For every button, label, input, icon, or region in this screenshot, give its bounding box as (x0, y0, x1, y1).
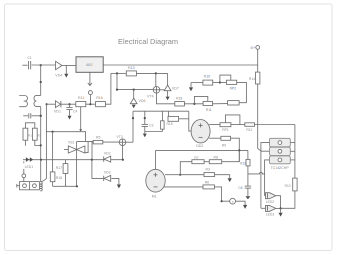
svg-text:R10: R10 (204, 74, 211, 78)
zener VD7 to ground (164, 85, 179, 100)
junction dot (89, 103, 91, 105)
arrow to ground after VD4 (64, 66, 68, 78)
amplifier DD2 (191, 120, 210, 149)
svg-text:VD3: VD3 (104, 171, 111, 175)
junction dot (122, 159, 124, 161)
wire R9 corner down (231, 138, 240, 162)
relay K1 cell 2 (270, 147, 291, 155)
capacitor C4 (66, 104, 77, 119)
wire node to relay col with jumper (248, 172, 265, 174)
wire VD3 row (92, 160, 103, 179)
resistor R8 (209, 156, 221, 164)
wire triac top rail (77, 140, 94, 142)
svg-text:R10: R10 (285, 184, 291, 188)
wire R13 to corner (136, 72, 167, 74)
potentiometer RP1 (220, 115, 240, 132)
svg-text:B+: B+ (251, 46, 256, 50)
resistor R11b (245, 123, 255, 132)
wire rail corner down to DD2 (189, 111, 191, 131)
svg-text:R11: R11 (206, 108, 212, 112)
resistor R3 (204, 167, 215, 176)
svg-text:LED2: LED2 (266, 200, 275, 204)
ground arrow gates (279, 208, 283, 216)
junction dot (219, 81, 221, 83)
resistor R12 (228, 101, 240, 105)
wire LED3 out (276, 207, 281, 209)
junction dot (52, 131, 54, 133)
resistor R9 (221, 136, 231, 147)
wire left column to L1 (40, 160, 42, 182)
wire triac anode down (76, 154, 78, 186)
svg-text:R15: R15 (166, 122, 172, 126)
optocoupler LED2 (265, 193, 276, 204)
svg-text:R17: R17 (56, 166, 62, 170)
ground arrow R3 (228, 178, 232, 182)
wire R13 row (111, 72, 126, 74)
arrow below U1 (88, 72, 92, 85)
terminal B+ (251, 46, 260, 51)
svg-text:R6: R6 (205, 181, 209, 185)
junction dot C4 node (68, 103, 70, 105)
resistor R20 vertical (161, 111, 165, 131)
svg-text:R14: R14 (249, 77, 255, 81)
junction dot (193, 103, 195, 105)
connector XS1 (17, 182, 40, 190)
wire jog to triac top (81, 132, 86, 142)
svg-text:R2: R2 (38, 133, 42, 137)
wire R2 to main vertical (35, 140, 41, 145)
resistor R11 (76, 96, 86, 107)
potentiometer RP2 (220, 75, 237, 90)
wire VT4 bottom to R19 row (157, 93, 175, 104)
capacitor C1 (27, 56, 32, 69)
resistor R18 (50, 172, 62, 182)
long wire U1 to B+ column (103, 64, 258, 66)
wire R10 to RP2 (213, 81, 227, 83)
wire right column (294, 125, 296, 179)
potentiometer RP3 (194, 96, 212, 112)
resistor R15 (166, 111, 188, 126)
svg-text:R18: R18 (56, 176, 62, 180)
wire B+ down (257, 49, 259, 72)
svg-text:LED3: LED3 (266, 213, 275, 217)
svg-text:R16: R16 (96, 96, 103, 100)
wire M1 stem (155, 150, 157, 169)
svg-text:VD4: VD4 (55, 74, 62, 78)
wire cell1 left (261, 143, 270, 209)
wire R11 to node (86, 103, 96, 105)
triac VS1 (64, 141, 85, 155)
wire R11b to right column (255, 124, 295, 126)
ground arrow meter (243, 205, 247, 209)
svg-text:R19: R19 (176, 96, 182, 100)
svg-text:VS1: VS1 (68, 141, 75, 145)
diode VD8 series pair (26, 157, 33, 162)
wire top-left input (22, 64, 27, 66)
svg-text:R11: R11 (78, 96, 84, 100)
junction dot (40, 81, 42, 83)
svg-text:R13: R13 (128, 66, 135, 70)
LED LED1 (22, 161, 33, 181)
resistor R16 (96, 96, 106, 107)
wire bottom rail triac (53, 185, 78, 187)
svg-text:C6: C6 (238, 186, 242, 190)
svg-text:VD7: VD7 (172, 86, 179, 90)
wire R5 to VT3 (103, 141, 120, 143)
wire R8 up to rail (222, 150, 240, 161)
junction dot (40, 115, 42, 117)
node A junction (40, 64, 42, 66)
wire drop to VD7 (167, 73, 169, 85)
junction dot (280, 207, 282, 209)
wire cell3 left (265, 160, 270, 196)
wire motor top rail (156, 149, 248, 151)
capacitor C2 series (23, 113, 41, 118)
wire VT3 bottom drop (122, 146, 124, 160)
capacitor C6 to ground (238, 174, 251, 199)
svg-text:Electrical Diagram: Electrical Diagram (118, 37, 178, 46)
svg-text:M1: M1 (152, 194, 157, 198)
svg-text:DD2: DD2 (196, 144, 203, 148)
wire mid rail (117, 73, 153, 89)
wire R3 to ground (215, 175, 230, 179)
svg-text:R5: R5 (96, 136, 100, 140)
junction dot (40, 159, 42, 161)
diode VD3 (104, 171, 111, 182)
diode VD4 (55, 61, 62, 77)
motor M1 (146, 169, 165, 198)
svg-text:VT3: VT3 (116, 135, 122, 139)
wire R7 to R8 (204, 161, 209, 163)
wire cell3 right (290, 159, 295, 161)
wire LED2 out (276, 196, 281, 209)
IC U1 (76, 57, 103, 73)
wire cell2 right (290, 150, 295, 152)
resistor R13 (126, 66, 136, 76)
wire R6 to meter (214, 187, 229, 201)
wire right column to L1 (42, 104, 47, 181)
wire main vertical top (40, 65, 42, 95)
svg-text:R1: R1 (28, 133, 32, 137)
wire R16 up to R13 row (105, 73, 111, 104)
wire DD2 to RP1 (209, 124, 220, 126)
junction dot (40, 144, 42, 146)
svg-text:C1: C1 (27, 56, 32, 60)
wire M1 bottom row (164, 186, 203, 188)
wire column to B+ rail junction (257, 125, 259, 149)
wire kink into relay cell2 (258, 148, 270, 151)
capacitor C3 to ground (142, 111, 154, 137)
inductor L1 (40, 182, 42, 191)
wire main vertical through winding (40, 107, 42, 116)
optocoupler LED3 (261, 205, 276, 216)
resistor R5 (93, 136, 103, 144)
wire drop to R18 (52, 132, 54, 172)
zener VD6 to ground (130, 90, 145, 109)
svg-text:VD1: VD1 (54, 109, 61, 113)
wire VD1 to R11 (61, 103, 76, 105)
svg-text:R11: R11 (246, 128, 252, 132)
resistor R1 (23, 128, 32, 140)
wire VT3 gate row (46, 131, 81, 133)
wire drop to VT4 (155, 73, 157, 86)
wire RP1 to R11b (231, 124, 245, 126)
svg-text:R7: R7 (194, 156, 198, 160)
wire R3 row (180, 174, 204, 176)
wire VD4 to U1 (62, 65, 76, 67)
wire long low rail (23, 159, 123, 161)
wire R12 loop up to RP2 (237, 82, 247, 102)
wire VD1 row start (46, 103, 56, 105)
junction dot (116, 72, 118, 74)
resistor R17 (56, 164, 68, 174)
junction dot (116, 89, 118, 91)
wire R1 R2 top bridge (25, 123, 34, 128)
resistor R10 (203, 74, 213, 85)
junction dot (155, 72, 157, 74)
svg-text:R8: R8 (214, 156, 218, 160)
resistor R14 (249, 72, 260, 84)
svg-text:RP2: RP2 (230, 86, 237, 90)
resistor R6 (203, 181, 214, 189)
svg-text:LED1: LED1 (25, 165, 34, 169)
wire R18 bottom (52, 182, 54, 187)
svg-text:R3: R3 (206, 167, 210, 171)
wire R19 to RP3 (184, 103, 203, 105)
wire cell1 right (290, 142, 295, 144)
svg-text:VD2: VD2 (104, 151, 111, 155)
wire R5 left drop (92, 142, 93, 160)
resistor R22 (240, 150, 250, 174)
transformer T1 right winding (34, 95, 41, 106)
svg-text:C3: C3 (149, 123, 153, 127)
resistor R7 (192, 156, 204, 164)
diode VD2 (104, 151, 111, 162)
wire VT4 right (160, 89, 165, 91)
meter PA1 (230, 198, 236, 204)
wire meter to ground (236, 201, 246, 205)
wire RP3 to R12 (213, 103, 228, 105)
wire DD2 lower to R9 (209, 137, 221, 139)
transistor VT3 (116, 135, 125, 145)
junction dot (179, 174, 181, 176)
wire R17 top stem (65, 160, 67, 164)
wire R17 bottom (65, 173, 67, 186)
svg-text:ABC: ABC (86, 63, 94, 67)
junction dot (76, 185, 78, 187)
svg-text:R9: R9 (222, 143, 226, 147)
junction dot (91, 159, 93, 161)
junction dot (132, 117, 134, 119)
wire triac gate branch (85, 141, 88, 152)
svg-text:VD6: VD6 (139, 99, 146, 103)
wire main vertical mid (40, 116, 42, 160)
wire R14 down to RP1 row (257, 84, 259, 125)
wire C1 to node (32, 64, 56, 66)
wire vertical x133 (132, 111, 134, 142)
svg-text:VT4: VT4 (147, 95, 154, 99)
wire VD3 to ground (111, 178, 119, 184)
node terminal circle below U1 (88, 91, 92, 105)
svg-text:TC142CHP: TC142CHP (270, 166, 289, 170)
junction dot (221, 200, 223, 202)
wire mid horizontal rail (133, 110, 189, 112)
ground arrow VD3 (117, 185, 121, 189)
arrow R11 wiper (79, 107, 82, 132)
resistor R2 (32, 128, 41, 140)
ground arrow R10 row (189, 83, 193, 92)
wire R20 bottom to C3 (145, 131, 163, 133)
junction dot (238, 149, 240, 151)
wire ground to R10 (191, 82, 203, 84)
diode VD1 (54, 101, 61, 114)
transformer T1 left winding (19, 96, 27, 107)
wire M1 right to node (165, 174, 180, 176)
wire R1 bottom stub (24, 140, 26, 146)
svg-text:R12: R12 (240, 161, 246, 165)
transistor VT4 (147, 87, 160, 99)
resistor R19 (175, 96, 185, 106)
relay K1 cell 3 (270, 156, 291, 170)
svg-text:C4: C4 (73, 110, 77, 114)
relay K1 cell 1 (270, 138, 291, 147)
wire node up to R7 row (180, 162, 192, 175)
svg-text:RP1: RP1 (222, 128, 229, 132)
junction dot (133, 89, 135, 91)
wire VT3 right to x133 (126, 141, 133, 143)
wire R21 down to gate node (281, 191, 295, 208)
resistor R21 (285, 178, 297, 191)
